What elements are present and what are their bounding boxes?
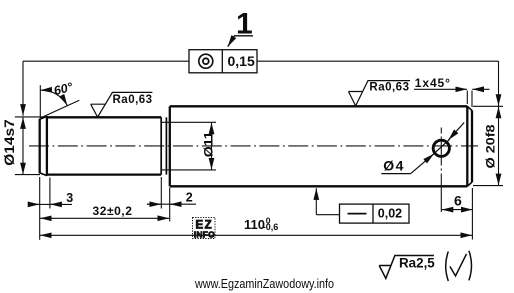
dimension Ø11 groove [161,122,216,170]
general roughness Ra2,5 with (✓) [379,256,434,279]
svg-text:INFO: INFO [194,229,215,239]
dimension 60° chamfer angle [40,85,79,118]
dimension 3 [29,177,73,240]
dimension 110 0/-0,6 [40,188,472,240]
svg-text:Ra2,5: Ra2,5 [399,255,435,270]
svg-text:2: 2 [186,191,193,205]
cross hole Ø4 [433,140,449,156]
surface finish Ra0,63 left [91,92,153,117]
svg-text:6: 6 [454,192,462,208]
hole centerline [440,128,442,190]
straightness leader [316,188,339,215]
axis centerline [29,145,478,147]
dimension 32±0,2 [40,217,169,219]
svg-text:3: 3 [66,191,73,205]
dimension Ø14s7 [15,117,48,175]
svg-text:Ra0,63: Ra0,63 [113,94,153,106]
svg-text:Ra0,63: Ra0,63 [369,82,409,94]
shaft large section Ø20 outline [170,106,472,186]
svg-text:32±0,2: 32±0,2 [93,204,133,218]
svg-text:0,15: 0,15 [228,53,255,69]
right chamfer 1x45° corner edges [467,106,472,186]
left chamfer 60° corner edges [40,116,47,175]
svg-text:Ø4: Ø4 [383,158,405,174]
shaft small section Ø14 outline [40,116,162,176]
straightness tolerance frame 0,02 [340,204,410,223]
concentricity tolerance frame ◎ 0,15 [189,50,257,73]
EZ info stamp [193,218,216,240]
dimension 2 groove width [147,177,196,222]
svg-text:Ø 20f8: Ø 20f8 [483,124,497,168]
svg-text:-0,6: -0,6 [263,222,279,232]
relief groove Ø11 walls [161,117,166,174]
dimension 6 hole position [441,189,472,212]
svg-text:Ø11: Ø11 [201,131,215,157]
svg-text:www.EgzaminZawodowy.info: www.EgzaminZawodowy.info [194,276,334,291]
svg-text:Ø14s7: Ø14s7 [1,119,17,166]
concentricity leader left to Ø14 dimension [23,61,189,116]
concentricity leader right to Ø20 dimension [257,61,499,106]
svg-text:1x45°: 1x45° [415,76,451,90]
dimension Ø20f8 [473,106,503,185]
surface finish Ra0,63 right [349,81,411,106]
svg-text:0,02: 0,02 [378,206,402,220]
